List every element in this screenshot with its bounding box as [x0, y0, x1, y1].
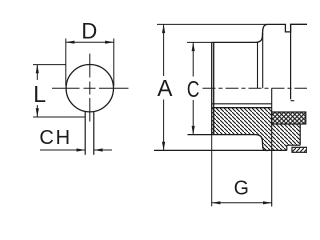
section boundary / G right extension	[271, 88, 273, 206]
skirt bottom edge + A extension	[154, 149, 287, 151]
brass insert cross hatch	[272, 112, 306, 124]
horizontal centerline	[52, 87, 129, 89]
front face outer line	[211, 42, 213, 134]
bore line upper	[212, 103, 272, 105]
bottom fillet S-curve	[255, 135, 268, 151]
fillet tangent edge 1	[257, 42, 259, 88]
vertical centerline	[89, 54, 91, 122]
svg-text:G: G	[234, 177, 249, 199]
dimension L	[33, 65, 85, 117]
panel slab hatch	[292, 147, 307, 152]
slot left line	[84, 111, 86, 155]
knob body section hatch	[212, 108, 271, 151]
body top outline with fillet, flange, groove, rear part	[212, 24, 307, 42]
rear part left face	[290, 24, 292, 99]
svg-text:D: D	[81, 19, 97, 44]
svg-text:CH: CH	[39, 127, 72, 149]
shaft end stub	[291, 100, 295, 102]
svg-text:A: A	[157, 75, 173, 101]
section centerline	[203, 87, 308, 89]
dimension D	[66, 39, 114, 87]
dimension C	[187, 42, 212, 134]
fillet tangent edge 2	[262, 33, 264, 88]
dimension G	[212, 135, 272, 207]
front face inner line (chamfer)	[213, 42, 215, 134]
svg-text:L: L	[33, 81, 46, 107]
bore hatch top edge	[212, 107, 271, 109]
svg-text:C: C	[187, 78, 200, 103]
cylinder bottom edge + C extension	[188, 134, 256, 136]
rear hub bottom edge	[287, 144, 300, 146]
dimension A	[157, 24, 268, 150]
slot right line	[93, 111, 95, 155]
groove notch wall	[286, 145, 288, 150]
dimension CH	[40, 149, 112, 151]
rear hub section hatch	[272, 124, 301, 150]
rear hub right edge	[299, 124, 301, 145]
front view circle (knob shaft hole)	[66, 65, 113, 112]
